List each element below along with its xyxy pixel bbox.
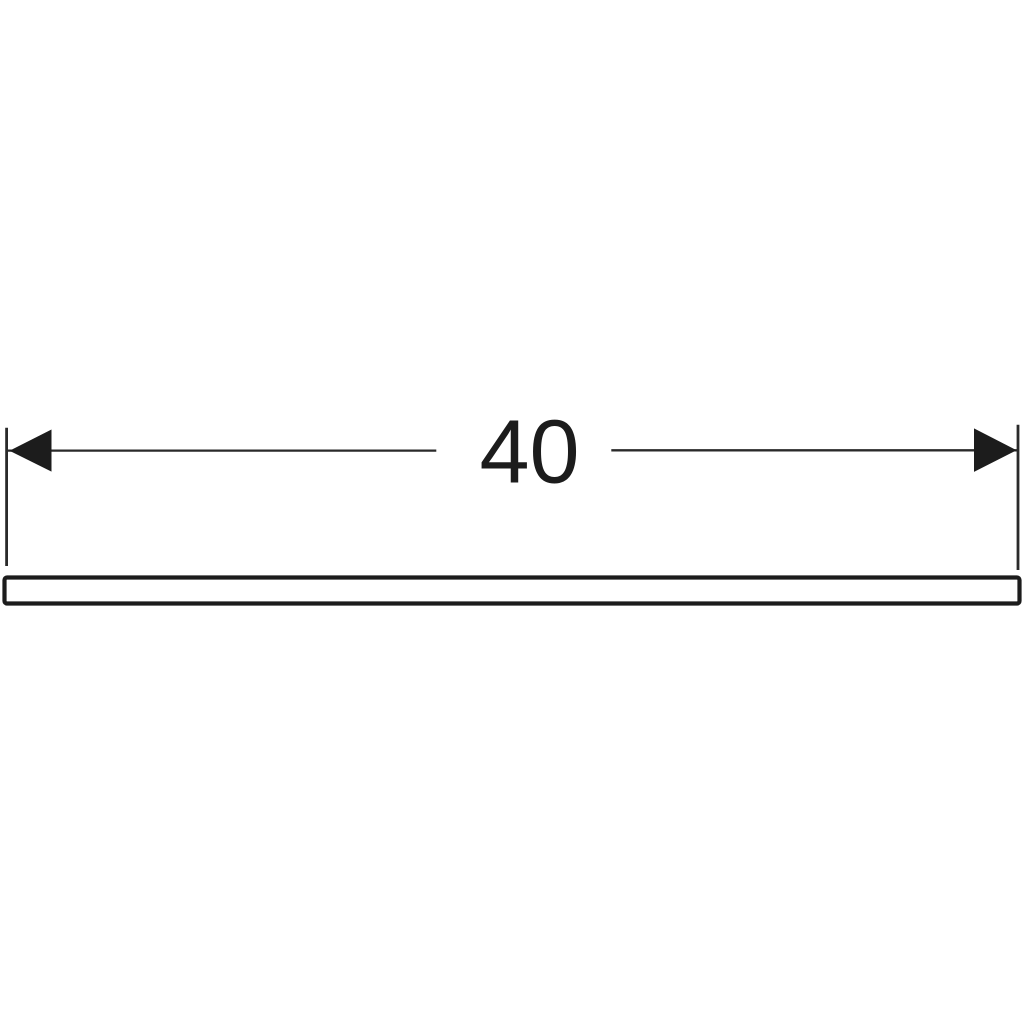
right extension line: [1017, 425, 1020, 570]
right arrowhead: [974, 428, 1017, 472]
svg-text:40: 40: [479, 402, 579, 502]
dimension line right segment: [611, 449, 1017, 451]
left extension line: [5, 428, 8, 566]
left arrowhead: [10, 430, 52, 472]
panel outline (washtop seen from front): [5, 578, 1020, 604]
dimension line left segment: [7, 449, 436, 451]
